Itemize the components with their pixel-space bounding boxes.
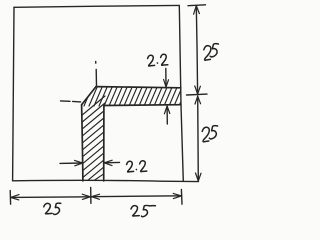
dimension 2.2 top: leader line down from label	[165, 69, 167, 87]
square plate outline: left edge	[13, 7, 14, 181]
label 2.2 (top)	[148, 54, 168, 66]
right dimension: middle extension tick	[187, 93, 208, 96]
dimension 2.2 top: arrowhead pointing down at flange top	[164, 80, 169, 88]
arrowhead down (bottom of upper 25)	[195, 86, 201, 94]
dimension 2.2 top: arrowhead pointing up at flange bottom	[164, 106, 169, 114]
hatching of vertical leg	[81, 96, 105, 116]
label 25 (bottom right)	[131, 205, 155, 216]
label 25 (bottom left)	[44, 203, 61, 214]
paper background	[0, 0, 223, 223]
arrowhead left (left end of right 25)	[91, 194, 99, 199]
arrowhead right (right end of left 25)	[82, 194, 90, 199]
label 25 (right lower)	[202, 126, 217, 142]
square plate outline: top edge	[14, 5, 179, 7]
bottom dimension line right 25	[91, 195, 181, 198]
centerline horizontal (left of corner)	[61, 100, 71, 102]
dimension 2.2 bottom: left arrow line	[60, 162, 82, 164]
arrowhead up (top of lower 25)	[195, 96, 201, 104]
L-section: outer corner chamfer	[82, 87, 96, 105]
L-section: right edge of vertical leg	[103, 106, 105, 181]
L-section: top edge of horizontal flange	[96, 87, 181, 88]
right dimension: top extension tick	[188, 4, 206, 7]
square plate outline: right edge	[179, 5, 183, 181]
label 25 (right upper)	[204, 44, 219, 61]
dimension 2.2 bottom: arrowhead pointing right at leg left edge	[75, 160, 83, 165]
arrowhead down (bottom of lower 25)	[196, 173, 202, 181]
bottom dimension: left extension tick	[9, 191, 11, 205]
dimension 2.2 top: lower arrow line below flange	[166, 106, 168, 124]
L-section: bottom edge of horizontal flange	[104, 104, 181, 107]
dimension 2.2 bottom: arrowhead pointing left at leg right edge	[104, 160, 112, 165]
arrowhead right (right end of right 25)	[173, 193, 181, 198]
bottom dimension: middle extension tick	[90, 188, 92, 204]
right dimension line lower 25	[197, 96, 200, 181]
dimension 2.2 bottom: right arrow line	[104, 161, 119, 163]
arrowhead up (top of upper 25)	[194, 6, 200, 15]
label 2.2 (bottom)	[127, 161, 147, 172]
bottom dimension line left 25	[11, 196, 91, 199]
square plate outline: bottom edge (extended right to dimension line)	[13, 180, 199, 181]
bottom dimension: right extension tick	[180, 190, 183, 205]
arrowhead left (left end of left 25)	[11, 195, 19, 200]
centerline vertical (above corner)	[95, 62, 97, 64]
right dimension line upper 25	[196, 6, 197, 94]
hatching of horizontal flange	[81, 85, 188, 186]
L-section: left edge of vertical leg	[82, 105, 83, 181]
